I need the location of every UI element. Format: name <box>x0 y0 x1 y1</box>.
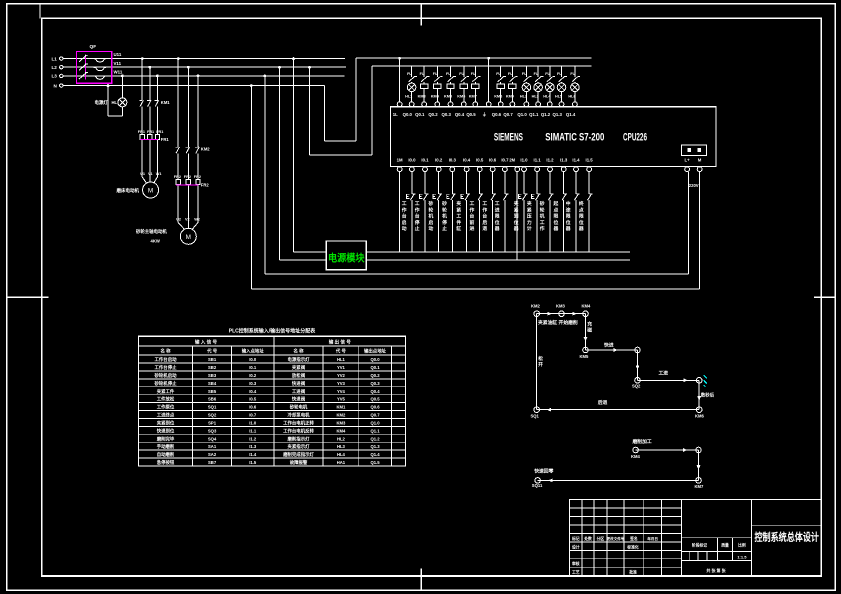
wire lamp branch <box>107 75 124 117</box>
node 5 <box>635 347 641 353</box>
svg-text:M: M <box>186 234 191 241</box>
svg-text:KM4: KM4 <box>631 454 641 459</box>
svg-text:夹紧油缸 开始磨削: 夹紧油缸 开始磨削 <box>538 319 578 326</box>
svg-text:I1.4: I1.4 <box>249 452 257 457</box>
svg-text:V11: V11 <box>114 61 122 66</box>
title block frame <box>570 500 822 576</box>
input switch I13 <box>574 172 579 252</box>
input switch I14 <box>588 172 593 252</box>
input switch I4 <box>447 172 456 252</box>
svg-text:数秒后: 数秒后 <box>701 392 715 399</box>
svg-text:I0.7: I0.7 <box>249 413 257 418</box>
svg-text:FR2: FR2 <box>184 175 191 179</box>
svg-text:I0.4: I0.4 <box>249 389 257 394</box>
svg-text:标准化: 标准化 <box>626 544 639 549</box>
svg-text:名 称: 名 称 <box>160 348 171 355</box>
svg-text:FR1: FR1 <box>156 130 163 134</box>
svg-text:HL: HL <box>112 100 118 105</box>
svg-text:夹紧工件: 夹紧工件 <box>157 388 175 395</box>
svg-text:SB3: SB3 <box>208 373 217 378</box>
svg-text:1M: 1M <box>397 158 403 163</box>
svg-text:名 称: 名 称 <box>293 348 304 355</box>
motor M1 <box>142 177 158 198</box>
label U2 V2 W2 <box>176 218 200 222</box>
svg-text:HL1: HL1 <box>405 95 412 99</box>
svg-text:FU: FU <box>407 72 412 76</box>
node N terminal <box>54 83 64 88</box>
svg-text:输出点地址: 输出点地址 <box>364 348 387 355</box>
centering mark left <box>7 296 49 298</box>
svg-text:4KW: 4KW <box>151 239 160 244</box>
svg-text:Q1.2: Q1.2 <box>541 112 551 117</box>
svg-text:HL5: HL5 <box>555 95 562 99</box>
svg-text:Q0.5: Q0.5 <box>466 112 476 117</box>
node L3 terminal <box>52 74 64 79</box>
svg-text:SIMATIC S7-200: SIMATIC S7-200 <box>545 131 604 143</box>
svg-text:HL6: HL6 <box>568 95 575 99</box>
input switch I9 <box>518 172 527 252</box>
svg-text:砂轮机停止: 砂轮机停止 <box>441 200 447 232</box>
svg-text:SQ3: SQ3 <box>208 428 217 433</box>
svg-text:SQ1: SQ1 <box>531 414 540 419</box>
svg-text:工进阀: 工进阀 <box>292 388 306 395</box>
wire riser L2 to power module <box>278 66 326 260</box>
svg-text:FU: FU <box>534 72 539 76</box>
wire output rail bus A <box>366 251 630 253</box>
svg-text:KM3: KM3 <box>336 420 346 425</box>
svg-text:SQ11: SQ11 <box>532 483 543 488</box>
svg-text:控制系统总体设计: 控制系统总体设计 <box>755 531 820 544</box>
svg-text:KM4: KM4 <box>431 95 440 99</box>
svg-text:FU: FU <box>522 72 527 76</box>
svg-text:夹紧到位器: 夹紧到位器 <box>513 200 519 232</box>
node L2 terminal <box>52 65 64 70</box>
svg-text:Q0.0: Q0.0 <box>370 357 380 362</box>
wire riser N to PLC supply <box>250 84 699 289</box>
svg-text:FR1: FR1 <box>161 137 170 142</box>
relay coil KM8 output <box>494 66 506 102</box>
svg-text:输 出 信 号: 输 出 信 号 <box>329 338 352 345</box>
svg-text:I0.0: I0.0 <box>249 357 257 362</box>
svg-text:电源指示灯: 电源指示灯 <box>288 356 311 363</box>
svg-text:I0.7: I0.7 <box>501 158 509 163</box>
label shalun motor <box>136 228 167 244</box>
relay coil KM3 output <box>418 66 430 102</box>
svg-text:HA1: HA1 <box>337 460 346 465</box>
svg-text:代 号: 代 号 <box>206 348 218 355</box>
wire L2 loop to output rail B <box>308 66 591 155</box>
svg-text:输 入 信 号: 输 入 信 号 <box>195 338 218 345</box>
relay coil KM6 output <box>457 66 469 102</box>
node SQ start <box>531 304 541 317</box>
svg-text:KM2: KM2 <box>531 304 541 309</box>
svg-text:FU: FU <box>471 72 476 76</box>
svg-text:I0.5: I0.5 <box>476 158 484 163</box>
svg-text:工艺: 工艺 <box>572 570 580 575</box>
input switch I2 <box>419 172 428 252</box>
svg-text:PLC控制系统输入/输出信号地址分配表: PLC控制系统输入/输出信号地址分配表 <box>229 328 316 335</box>
centering mark right <box>814 296 835 298</box>
motor M2 <box>178 223 198 245</box>
svg-text:FR2: FR2 <box>174 175 181 179</box>
thermal relay FR1 <box>138 130 170 177</box>
svg-text:HL4: HL4 <box>543 95 551 99</box>
svg-text:Q1.0: Q1.0 <box>517 112 527 117</box>
wire motor1 feeders <box>139 57 158 134</box>
svg-text:Q0.2: Q0.2 <box>370 373 380 378</box>
wire L3 phase bus <box>63 75 344 77</box>
svg-text:工作台启动: 工作台启动 <box>402 201 407 232</box>
svg-text:FU: FU <box>508 72 513 76</box>
svg-text:YV2: YV2 <box>337 373 346 378</box>
wire riser L1 to power module <box>292 57 326 252</box>
svg-text:Q1.0: Q1.0 <box>370 420 380 425</box>
cycle diagram wires loop1 <box>537 312 701 412</box>
svg-text:快进阀: 快进阀 <box>292 380 306 387</box>
svg-text:磨削加工: 磨削加工 <box>632 438 652 445</box>
svg-text:夹紧指示灯: 夹紧指示灯 <box>288 443 311 450</box>
svg-text:FU: FU <box>420 72 425 76</box>
svg-text:YV4: YV4 <box>337 389 346 394</box>
cycle diagram wires loop2 <box>538 448 701 482</box>
node L1 terminal <box>52 56 64 61</box>
wire motor2 feeders <box>175 57 199 179</box>
svg-text:SB6: SB6 <box>208 397 217 402</box>
svg-text:Q1.2: Q1.2 <box>370 436 380 441</box>
svg-text:SB2: SB2 <box>208 365 217 370</box>
svg-text:Q0.7: Q0.7 <box>503 112 513 117</box>
svg-text:220V: 220V <box>689 183 699 188</box>
svg-text:W2: W2 <box>194 218 200 222</box>
svg-text:FU: FU <box>459 72 464 76</box>
wire 2L drop <box>487 57 490 102</box>
svg-text:M: M <box>148 188 153 195</box>
thermal relay FR2 <box>174 175 210 223</box>
svg-text:L2: L2 <box>52 65 58 70</box>
svg-text:KM8: KM8 <box>494 95 502 99</box>
wire L2 phase bus <box>63 66 346 68</box>
wire N loop to output rail A <box>325 58 592 141</box>
svg-text:快退到位: 快退到位 <box>157 427 175 434</box>
node m3 <box>695 478 705 490</box>
svg-text:Q1.3: Q1.3 <box>553 112 563 117</box>
svg-text:FR1: FR1 <box>138 130 145 134</box>
input switch I10 <box>532 172 541 252</box>
svg-text:冷却泵电机: 冷却泵电机 <box>288 412 311 419</box>
PLC bottom terminals <box>397 167 702 172</box>
svg-text:HL3: HL3 <box>532 95 539 99</box>
svg-text:处数: 处数 <box>583 536 592 541</box>
centering mark bottom <box>420 569 422 591</box>
node 4 <box>580 347 590 359</box>
relay coil KM7 output <box>469 66 481 102</box>
svg-text:U2: U2 <box>176 218 181 222</box>
svg-text:YV1: YV1 <box>337 365 346 370</box>
svg-text:夹紧压力计: 夹紧压力计 <box>527 200 532 232</box>
svg-text:FU: FU <box>433 72 438 76</box>
svg-text:SB1: SB1 <box>208 357 217 362</box>
svg-text:HL1: HL1 <box>337 357 346 362</box>
svg-text:工进限位器: 工进限位器 <box>494 201 500 232</box>
svg-text:V1: V1 <box>148 172 153 176</box>
IO assignment table grid <box>138 336 405 466</box>
svg-text:KM6: KM6 <box>457 95 465 99</box>
circuit breaker QF <box>77 44 112 83</box>
svg-text:W1: W1 <box>156 172 162 176</box>
svg-text:夹紧到位: 夹紧到位 <box>157 419 175 426</box>
svg-text:工进终点: 工进终点 <box>157 412 175 419</box>
node m2 <box>696 447 702 453</box>
svg-text:I0.1: I0.1 <box>421 158 429 163</box>
svg-text:I1.1: I1.1 <box>534 158 542 163</box>
svg-text:KM4: KM4 <box>336 428 346 433</box>
svg-text:砂轮机停止: 砂轮机停止 <box>155 380 178 387</box>
input switch I12 <box>562 172 567 252</box>
svg-text:KM6: KM6 <box>695 414 705 419</box>
svg-text:L+: L+ <box>685 158 691 163</box>
svg-text:FR1: FR1 <box>147 130 154 134</box>
svg-text:Q0.3: Q0.3 <box>442 112 452 117</box>
wire input common 2M <box>515 167 520 260</box>
relay coil KM9 output <box>506 66 518 102</box>
PLC port connector <box>682 145 707 155</box>
svg-text:Q0.6: Q0.6 <box>370 405 380 410</box>
input switch I8 <box>503 172 508 252</box>
svg-text:Q1.1: Q1.1 <box>529 112 539 117</box>
svg-text:松开: 松开 <box>538 355 543 368</box>
node m1 <box>631 447 641 459</box>
svg-text:⏚: ⏚ <box>482 111 486 118</box>
wire L1 phase bus <box>63 58 345 60</box>
svg-text:KM2: KM2 <box>336 413 346 418</box>
svg-text:年月日: 年月日 <box>647 536 658 541</box>
label U11 V11 W11 <box>114 52 123 74</box>
svg-text:U11: U11 <box>114 52 122 57</box>
node clamp <box>556 304 566 317</box>
svg-text:I1.3: I1.3 <box>560 158 568 163</box>
svg-text:KM5: KM5 <box>444 95 452 99</box>
svg-text:Q0.2: Q0.2 <box>428 112 438 117</box>
svg-text:SQ1: SQ1 <box>208 405 217 410</box>
svg-text:签名: 签名 <box>629 536 638 541</box>
svg-text:磨削完成指示灯: 磨削完成指示灯 <box>282 451 314 458</box>
relay coil KM5 output <box>444 66 456 102</box>
table header texts <box>160 338 386 354</box>
svg-text:I0.6: I0.6 <box>249 405 257 410</box>
svg-text:KM1: KM1 <box>161 100 171 105</box>
svg-text:I1.2: I1.2 <box>249 436 257 441</box>
svg-text:Q0.0: Q0.0 <box>403 112 413 117</box>
svg-text:SB5: SB5 <box>208 389 217 394</box>
lamp HL1 output <box>405 66 417 102</box>
svg-text:工作台停止: 工作台停止 <box>155 364 178 371</box>
svg-text:FR2: FR2 <box>194 175 201 179</box>
lamp HL power indicator <box>112 98 127 107</box>
svg-text:输入点地址: 输入点地址 <box>242 348 265 355</box>
svg-text:M: M <box>698 158 702 163</box>
svg-text:工作台电机正转: 工作台电机正转 <box>283 419 314 426</box>
svg-text:砂轮机启动: 砂轮机启动 <box>155 372 178 379</box>
svg-text:I0.6: I0.6 <box>489 158 497 163</box>
svg-text:Q0.7: Q0.7 <box>370 413 380 418</box>
svg-text:砂轮主轴电动机: 砂轮主轴电动机 <box>136 228 167 235</box>
svg-text:KM5: KM5 <box>580 354 590 359</box>
svg-text:SP1: SP1 <box>208 420 217 425</box>
svg-text:1L: 1L <box>393 112 398 117</box>
svg-text:L1: L1 <box>52 56 58 61</box>
svg-text:I1.4: I1.4 <box>572 158 580 163</box>
svg-text:KM9: KM9 <box>506 95 514 99</box>
node 8 <box>695 407 705 419</box>
svg-text:磨床电动机: 磨床电动机 <box>116 187 140 194</box>
svg-text:QF: QF <box>90 44 97 50</box>
wire input common 1M <box>399 172 401 252</box>
svg-text:HL2: HL2 <box>337 436 346 441</box>
svg-text:I1.0: I1.0 <box>520 158 528 163</box>
svg-text:HL4: HL4 <box>337 452 346 457</box>
svg-text:质量: 质量 <box>720 542 729 547</box>
svg-text:CPU226: CPU226 <box>623 131 647 143</box>
power module box <box>326 241 366 270</box>
svg-text:I0.3: I0.3 <box>449 158 457 163</box>
svg-text:快速回零: 快速回零 <box>534 467 553 474</box>
svg-text:I1.1: I1.1 <box>249 428 257 433</box>
svg-text:SQ4: SQ4 <box>208 436 217 441</box>
svg-text:KM1: KM1 <box>336 405 346 410</box>
label U1 V1 W1 <box>140 172 161 176</box>
svg-text:I0.1: I0.1 <box>249 365 257 370</box>
svg-text:Q1.4: Q1.4 <box>370 452 380 457</box>
svg-text:FU: FU <box>557 72 562 76</box>
dead stop mark <box>704 375 707 387</box>
svg-text:审核: 审核 <box>572 561 580 566</box>
svg-text:后退: 后退 <box>598 399 608 406</box>
input switch I1 <box>406 172 415 252</box>
svg-text:分区: 分区 <box>597 536 605 541</box>
svg-text:U1: U1 <box>140 172 145 176</box>
svg-text:SA2: SA2 <box>208 452 217 457</box>
svg-text:Q0.4: Q0.4 <box>455 112 465 117</box>
svg-text:Q1.1: Q1.1 <box>370 428 380 433</box>
svg-text:SB7: SB7 <box>208 460 217 465</box>
node 7 <box>696 378 702 384</box>
lamp HL6 output <box>568 66 580 102</box>
svg-text:FR2: FR2 <box>201 183 210 188</box>
title block middle texts <box>692 542 747 573</box>
svg-text:放松阀: 放松阀 <box>291 372 306 379</box>
svg-text:电源模块: 电源模块 <box>328 252 365 265</box>
svg-text:KM7: KM7 <box>695 484 705 489</box>
svg-text:KM3: KM3 <box>418 95 426 99</box>
svg-text:L3: L3 <box>52 74 58 79</box>
svg-text:更改文件号: 更改文件号 <box>606 536 625 541</box>
PLC bottom terminal row labels <box>397 158 702 163</box>
input switch I7 <box>491 172 496 252</box>
svg-text:急停按钮: 急停按钮 <box>157 459 175 466</box>
svg-text:KM4: KM4 <box>582 304 592 309</box>
svg-text:I1.3: I1.3 <box>249 444 257 449</box>
svg-text:工进: 工进 <box>659 370 669 377</box>
input switch I11 <box>548 172 553 252</box>
relay coil KM4 output <box>431 66 443 102</box>
svg-text:SB4: SB4 <box>208 381 217 386</box>
svg-text:Q0.3: Q0.3 <box>370 381 380 386</box>
svg-text:KM7: KM7 <box>469 95 477 99</box>
svg-text:2M: 2M <box>509 158 515 163</box>
svg-text:快进: 快进 <box>604 342 614 349</box>
svg-text:I0.2: I0.2 <box>435 158 443 163</box>
svg-text:I0.2: I0.2 <box>249 373 257 378</box>
svg-text:Q0.4: Q0.4 <box>370 389 380 394</box>
svg-text:YV5: YV5 <box>337 397 346 402</box>
svg-text:KM2: KM2 <box>201 147 211 152</box>
svg-text:I0.0: I0.0 <box>408 158 416 163</box>
svg-text:W11: W11 <box>114 70 123 75</box>
svg-text:FU: FU <box>446 72 451 76</box>
wire 1L drop <box>398 57 401 102</box>
svg-text:Q1.3: Q1.3 <box>370 444 380 449</box>
svg-text:Q0.1: Q0.1 <box>370 365 380 370</box>
svg-text:HL3: HL3 <box>337 444 346 449</box>
PLC top terminals <box>397 102 577 107</box>
svg-text:I0.5: I0.5 <box>249 397 257 402</box>
node grind <box>582 304 592 317</box>
svg-text:阶段标记: 阶段标记 <box>692 542 707 547</box>
svg-text:批准: 批准 <box>629 570 637 575</box>
svg-text:HL2: HL2 <box>520 95 527 99</box>
svg-text:Q0.6: Q0.6 <box>492 112 502 117</box>
svg-text:KM3: KM3 <box>556 304 566 309</box>
svg-text:工作台停止: 工作台停止 <box>415 201 420 232</box>
svg-text:快退阀: 快退阀 <box>292 396 306 403</box>
node 9 <box>531 407 540 419</box>
PLC SIEMENS S7-200 CPU226 <box>390 107 716 167</box>
svg-text:代 号: 代 号 <box>335 348 347 355</box>
title block left texts <box>571 536 658 575</box>
svg-text:1:1.5: 1:1.5 <box>737 554 747 559</box>
svg-text:Q1.4: Q1.4 <box>566 112 576 117</box>
lamp HL5 output <box>555 66 567 102</box>
svg-text:工作台后退: 工作台后退 <box>482 201 487 232</box>
svg-text:标记: 标记 <box>571 536 580 541</box>
centering mark top <box>420 4 422 26</box>
svg-text:夹紧阀: 夹紧阀 <box>292 364 306 371</box>
svg-text:故障报警: 故障报警 <box>290 459 308 466</box>
svg-text:自动磨削: 自动磨削 <box>157 451 175 458</box>
wire N neutral bus <box>63 85 325 87</box>
node 6 <box>632 378 641 389</box>
svg-text:SA1: SA1 <box>208 444 217 449</box>
wire output rail bus B <box>366 259 630 261</box>
svg-text:YV3: YV3 <box>337 381 346 386</box>
svg-text:I1.5: I1.5 <box>586 158 594 163</box>
lamp HL3 output <box>532 66 544 102</box>
svg-text:电源灯: 电源灯 <box>95 99 109 106</box>
svg-text:中途限位器: 中途限位器 <box>565 200 571 232</box>
svg-text:充磁: 充磁 <box>586 321 592 334</box>
svg-text:Q0.1: Q0.1 <box>415 112 425 117</box>
svg-text:V2: V2 <box>185 218 190 222</box>
node m4 <box>532 478 543 489</box>
svg-text:I1.2: I1.2 <box>546 158 554 163</box>
title block drawing title <box>751 525 821 543</box>
fold mark top-left <box>39 4 41 19</box>
svg-text:工件放松: 工件放松 <box>157 396 175 403</box>
lamp HL4 output <box>543 66 555 102</box>
svg-text:FU: FU <box>496 72 501 76</box>
svg-text:磨削指示灯: 磨削指示灯 <box>287 435 311 442</box>
svg-text:Q1.5: Q1.5 <box>370 460 380 465</box>
